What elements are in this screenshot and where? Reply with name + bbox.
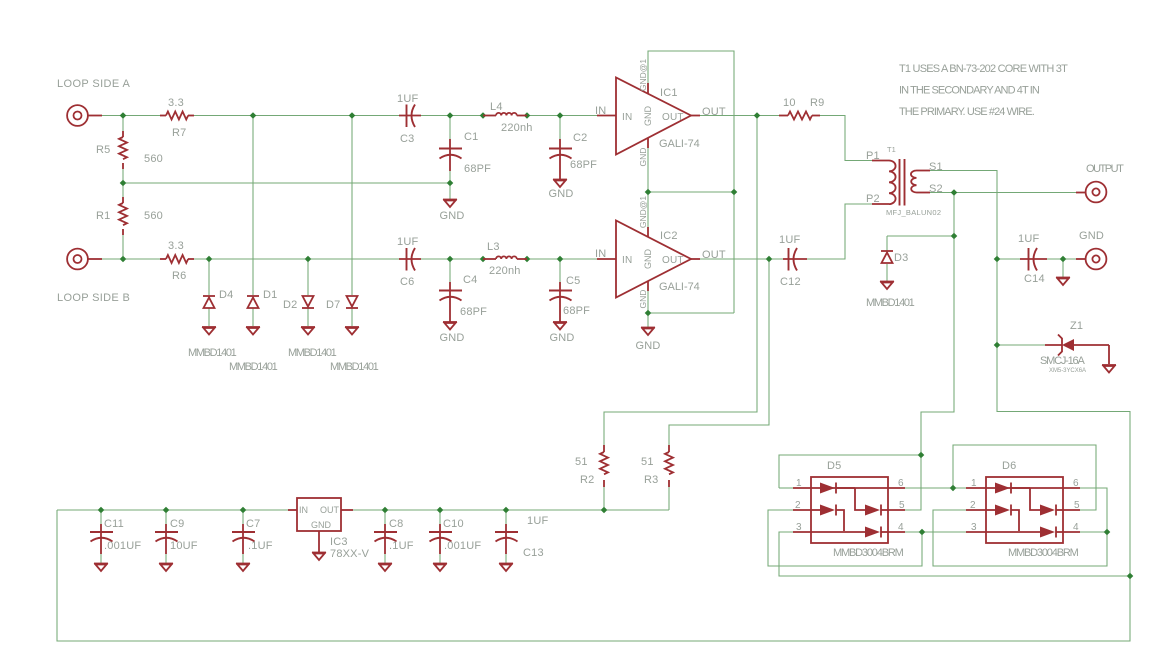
svg-text:C1: C1 xyxy=(464,131,478,143)
wire: IC1 OUT bias riser to R2 xyxy=(604,116,757,446)
ground under IC2 xyxy=(641,328,655,336)
svg-text:D7: D7 xyxy=(326,299,340,311)
wire: C10 stem xyxy=(439,510,441,524)
ground under D4 xyxy=(202,327,216,335)
resistor R5 xyxy=(119,131,127,169)
svg-text:.001UF: .001UF xyxy=(104,540,141,552)
diode D2 MMBD1401 xyxy=(302,296,314,308)
svg-text:3: 3 xyxy=(796,522,802,533)
junction group: mid wire xyxy=(120,180,127,187)
svg-text:C5: C5 xyxy=(566,275,580,287)
svg-text:D6: D6 xyxy=(1002,460,1016,472)
capacitor C13 xyxy=(495,524,518,554)
wire: D5 pin6 to D6 pin1 xyxy=(905,487,966,489)
svg-text:GND@1: GND@1 xyxy=(638,196,648,229)
wire: D5 pin1/pin5 loop xyxy=(779,455,921,510)
svg-text:S2: S2 xyxy=(929,183,943,195)
wire: R5 R1 divider column xyxy=(122,116,124,138)
svg-text:MMBD3004BRM: MMBD3004BRM xyxy=(833,547,904,559)
diode array D6 MMBD3004BRM xyxy=(966,477,1080,543)
svg-text:2: 2 xyxy=(970,500,976,511)
capacitor C9 xyxy=(155,524,178,554)
svg-text:LOOP SIDE A: LOOP SIDE A xyxy=(57,78,130,90)
inductor L4 xyxy=(483,113,527,116)
svg-text:4: 4 xyxy=(1073,522,1079,533)
svg-text:GND: GND xyxy=(643,249,653,270)
ground under C7 xyxy=(236,564,250,572)
svg-text:6: 6 xyxy=(898,478,904,489)
svg-text:C4: C4 xyxy=(463,274,477,286)
connector OUTPUT xyxy=(1076,182,1106,203)
wire: S1 net down right to bottom xyxy=(57,345,1130,641)
wire: D6 pin1/pin5 loop xyxy=(953,445,1096,510)
capacitor C2 xyxy=(549,139,572,179)
wire: row A after C3 xyxy=(421,115,483,117)
wire: row B after R6 xyxy=(194,258,399,260)
svg-text:1UF: 1UF xyxy=(779,234,800,246)
svg-text:1UF: 1UF xyxy=(397,236,418,248)
diode D1 MMBD1401 xyxy=(247,296,259,308)
svg-text:GND: GND xyxy=(548,188,573,200)
diode array D5 MMBD3004BRM xyxy=(793,477,905,543)
wire: C1 stem lower to mid wire and gnd xyxy=(449,171,451,199)
wire: C9 stem xyxy=(165,510,167,524)
svg-text:OUT: OUT xyxy=(702,249,726,261)
svg-text:THE PRIMARY. USE #24 WIRE.: THE PRIMARY. USE #24 WIRE. xyxy=(899,106,1035,118)
svg-text:C9: C9 xyxy=(170,518,184,530)
wire: IC2 OUT bias riser to R3 xyxy=(669,259,769,445)
svg-text:68PF: 68PF xyxy=(460,306,487,318)
svg-text:10UF: 10UF xyxy=(170,540,198,552)
wire: D3 to gnd xyxy=(886,264,888,281)
svg-text:L3: L3 xyxy=(487,241,500,253)
resistor R1 xyxy=(119,197,127,235)
wire: S2 net down to D5 loop xyxy=(921,236,954,455)
wire: C4 stem xyxy=(449,259,451,282)
svg-text:C10: C10 xyxy=(443,518,464,530)
svg-text:OUTPUT: OUTPUT xyxy=(1086,163,1124,175)
svg-text:IN THE SECONDARY AND 4T IN: IN THE SECONDARY AND 4T IN xyxy=(899,85,1040,97)
capacitor C8 xyxy=(374,524,397,554)
wire: row A after R7 xyxy=(194,115,399,117)
ground under D3 xyxy=(880,282,894,290)
ground under C11 xyxy=(94,564,108,572)
svg-text:3: 3 xyxy=(971,522,977,533)
svg-text:C11: C11 xyxy=(104,518,124,530)
svg-text:GND: GND xyxy=(439,332,464,344)
wire: IC1 OUT to R9 xyxy=(700,115,779,117)
svg-text:GND: GND xyxy=(1079,230,1104,242)
svg-text:D1: D1 xyxy=(263,289,277,301)
ground under C8 xyxy=(378,564,392,572)
wire: D6 pin2 U link xyxy=(933,488,1107,566)
wire: D5 pin4 to D6 pin3 xyxy=(905,531,966,533)
zener Z1 SMCJ-16A xyxy=(1045,335,1109,365)
svg-text:MMBD1401: MMBD1401 xyxy=(229,361,278,373)
svg-text:R5: R5 xyxy=(96,144,110,156)
inductor L3 xyxy=(483,256,527,259)
wire: IC2 OUT to C12 xyxy=(700,258,783,260)
svg-text:6: 6 xyxy=(1073,478,1079,489)
ground under C9 xyxy=(159,564,173,572)
ground under C5 xyxy=(553,322,567,330)
svg-text:GND: GND xyxy=(643,106,653,127)
svg-text:10: 10 xyxy=(783,97,796,109)
svg-text:.1UF: .1UF xyxy=(389,540,414,552)
wire: T1 S2 to OUTPUT xyxy=(930,192,954,194)
svg-text:IC3: IC3 xyxy=(330,536,348,548)
wire: D2 to gnd xyxy=(307,308,309,326)
wire: S1 vertical to Z1 line xyxy=(996,259,998,345)
wire: mid horizontal y=183 xyxy=(123,182,450,184)
capacitor C1 xyxy=(439,139,462,171)
wire: C5 stem xyxy=(559,259,561,282)
wire: C14 gnd drop xyxy=(1062,259,1064,277)
svg-text:IN: IN xyxy=(299,505,308,515)
wire: supply bus left of IC3 xyxy=(57,509,288,511)
resistor R9 xyxy=(779,112,820,120)
svg-text:51: 51 xyxy=(641,456,654,468)
svg-text:IN: IN xyxy=(622,112,632,123)
svg-text:560: 560 xyxy=(144,210,163,222)
svg-text:C2: C2 xyxy=(573,132,587,144)
svg-text:R3: R3 xyxy=(644,474,658,486)
wire: row A net from connector to R7 xyxy=(102,115,123,117)
svg-text:MMBD1401: MMBD1401 xyxy=(288,347,337,359)
junction group: S2 output xyxy=(951,189,958,196)
ground under C2 xyxy=(553,180,567,188)
wire: row B net from connector to R6 xyxy=(102,258,123,260)
wire: D3 line xyxy=(887,235,954,237)
svg-text:IN: IN xyxy=(622,255,632,266)
svg-text:C12: C12 xyxy=(780,276,801,288)
wire: IC2 gnd stem xyxy=(647,313,649,327)
junction group: row B xyxy=(120,256,127,263)
svg-text:SMCJ-16A: SMCJ-16A xyxy=(1040,355,1085,367)
svg-text:D3: D3 xyxy=(894,252,908,264)
capacitor C14 xyxy=(1020,248,1047,271)
svg-text:GND: GND xyxy=(549,332,574,344)
svg-text:R1: R1 xyxy=(96,210,110,222)
ground under IC3 xyxy=(312,553,326,561)
svg-text:4: 4 xyxy=(898,522,904,533)
svg-text:MMBD1401: MMBD1401 xyxy=(866,297,915,309)
svg-text:R7: R7 xyxy=(172,127,186,139)
junction group: GALI gnd loop xyxy=(645,189,652,196)
ground under D2 xyxy=(301,327,315,335)
svg-text:T1: T1 xyxy=(887,145,896,154)
svg-text:IC1: IC1 xyxy=(660,87,678,99)
svg-text:OUT: OUT xyxy=(662,112,684,123)
svg-text:GND: GND xyxy=(439,210,464,222)
transformer T1 MFJ_BALUN02 xyxy=(872,159,930,206)
junction group: D5 D6 area xyxy=(918,452,925,459)
svg-text:C14: C14 xyxy=(1024,273,1045,285)
wire: IC1 gnd loop xyxy=(648,51,734,192)
svg-text:68PF: 68PF xyxy=(464,163,491,175)
connector LOOP SIDE B xyxy=(67,249,102,270)
svg-text:C13: C13 xyxy=(523,547,544,559)
capacitor C10 xyxy=(429,524,452,554)
svg-text:D5: D5 xyxy=(827,460,841,472)
wire: D1 to gnd xyxy=(252,308,254,326)
svg-text:XM5-3YCX6A: XM5-3YCX6A xyxy=(1049,368,1086,374)
junction group: row A xyxy=(120,112,127,119)
svg-text:5: 5 xyxy=(1074,500,1080,511)
wire: row B after C6 xyxy=(421,258,483,260)
capacitor C5 xyxy=(549,282,572,322)
wire: D3 top lead xyxy=(886,236,888,251)
svg-text:IC2: IC2 xyxy=(660,230,678,242)
svg-text:68PF: 68PF xyxy=(563,305,590,317)
svg-text:OUT: OUT xyxy=(702,106,726,118)
svg-text:68PF: 68PF xyxy=(570,159,597,171)
svg-text:Z1: Z1 xyxy=(1070,320,1083,332)
wire: R2 bottom to bus xyxy=(603,487,605,510)
op-amp IC1 GALI-74 xyxy=(597,78,700,155)
wire: row B after L3 to IC2 IN xyxy=(527,258,597,260)
svg-text:IN: IN xyxy=(595,105,606,117)
wire: D4 column xyxy=(208,259,210,295)
wire: C1 stem upper xyxy=(449,116,451,140)
capacitor C11 xyxy=(90,524,113,554)
svg-text:GND@1: GND@1 xyxy=(638,59,648,92)
svg-text:R2: R2 xyxy=(580,474,594,486)
svg-text:MMBD1401: MMBD1401 xyxy=(330,361,379,373)
svg-text:S1: S1 xyxy=(929,161,943,173)
svg-text:T1 USES A BN-73-202 CORE WITH: T1 USES A BN-73-202 CORE WITH 3T xyxy=(899,63,1068,75)
capacitor C7 xyxy=(232,524,255,554)
svg-text:51: 51 xyxy=(575,456,588,468)
wire: C11 stem xyxy=(100,510,102,524)
svg-text:.001UF: .001UF xyxy=(444,540,481,552)
wire: D1 column xyxy=(252,116,254,296)
svg-text:MMBD1401: MMBD1401 xyxy=(188,347,237,359)
ground under C1 xyxy=(443,200,457,208)
svg-text:1: 1 xyxy=(796,478,802,489)
svg-text:1UF: 1UF xyxy=(527,515,548,527)
svg-text:GND: GND xyxy=(311,520,332,530)
capacitor C4 xyxy=(439,282,462,322)
wire: C2 stem xyxy=(559,116,561,140)
diode D7 MMBD1401 xyxy=(346,296,358,308)
wire: D7 to gnd xyxy=(351,308,353,326)
svg-text:GND: GND xyxy=(638,290,648,309)
svg-text:GALI-74: GALI-74 xyxy=(659,138,700,150)
svg-text:GND: GND xyxy=(635,340,660,352)
svg-text:560: 560 xyxy=(144,153,163,165)
svg-text:C6: C6 xyxy=(400,276,414,288)
wire: row A after L4 to IC1 IN xyxy=(527,115,597,117)
svg-text:1: 1 xyxy=(971,478,977,489)
svg-text:OUT: OUT xyxy=(662,255,684,266)
svg-text:220nh: 220nh xyxy=(489,265,521,277)
ground under C14 junction xyxy=(1056,278,1070,286)
svg-text:R9: R9 xyxy=(810,97,824,109)
wire: supply bus right of IC3 xyxy=(353,509,669,511)
wire: Z1 line xyxy=(997,344,1046,346)
wire: after R9 to T1 P1 xyxy=(820,116,872,161)
wire: D7 column xyxy=(351,116,353,296)
svg-text:MMBD3004BRM: MMBD3004BRM xyxy=(1008,547,1079,559)
svg-text:OUT: OUT xyxy=(320,505,340,515)
wire: after C12 up to T1 P2 xyxy=(807,204,872,259)
svg-text:P2: P2 xyxy=(866,193,880,205)
wire: S2 down to D3 line xyxy=(953,193,955,237)
ground under C13 xyxy=(499,564,513,572)
svg-text:1UF: 1UF xyxy=(1018,233,1039,245)
svg-text:D4: D4 xyxy=(219,289,233,301)
wire: C8 stem xyxy=(384,510,386,524)
wire: C13 stem xyxy=(505,510,507,524)
diode D4 MMBD1401 xyxy=(203,296,215,308)
diode D3 MMBD1401 xyxy=(881,251,893,263)
resistor R7 xyxy=(160,112,194,120)
connector GND xyxy=(1076,249,1106,270)
junction group: supply bus xyxy=(98,507,105,514)
ground under C4 xyxy=(443,322,457,330)
capacitor C6 xyxy=(399,248,421,271)
svg-text:.1UF: .1UF xyxy=(248,540,273,552)
wire: IC2 gnd loop xyxy=(647,192,649,227)
wire: C7 stem xyxy=(242,510,244,524)
capacitor C3 xyxy=(399,105,421,128)
svg-text:C3: C3 xyxy=(400,133,414,145)
svg-text:2: 2 xyxy=(795,500,801,511)
op-amp IC2 GALI-74 xyxy=(597,221,700,298)
svg-text:LOOP SIDE B: LOOP SIDE B xyxy=(57,292,130,304)
wire: C14 line xyxy=(997,258,1020,260)
wire: D6 pin4 stub to vertical xyxy=(1080,531,1107,533)
wire: T1 S1 to C14 line and down xyxy=(930,171,997,260)
svg-text:IN: IN xyxy=(595,248,606,260)
resistor R3 xyxy=(665,445,673,487)
wire: D5 pin3 drop to bottom junction xyxy=(779,532,1130,576)
svg-text:3.3: 3.3 xyxy=(168,240,184,252)
voltage regulator IC3 78XX-V xyxy=(288,498,353,552)
svg-text:5: 5 xyxy=(899,500,905,511)
wire: D2 column xyxy=(307,259,309,295)
wire: R3 bottom to bus xyxy=(668,487,670,510)
svg-text:L4: L4 xyxy=(490,101,503,113)
resistor R2 xyxy=(600,445,608,487)
capacitor C12 xyxy=(783,248,807,271)
connector LOOP SIDE A xyxy=(67,105,102,126)
svg-text:1UF: 1UF xyxy=(397,93,418,105)
svg-text:220nh: 220nh xyxy=(501,122,533,134)
svg-text:C8: C8 xyxy=(389,518,403,530)
svg-text:MFJ_BALUN02: MFJ_BALUN02 xyxy=(886,208,941,217)
wire: D4 to gnd xyxy=(208,308,210,326)
svg-text:C7: C7 xyxy=(246,518,260,530)
svg-text:GND: GND xyxy=(638,148,648,167)
svg-text:R6: R6 xyxy=(172,270,186,282)
resistor R6 xyxy=(160,255,194,263)
svg-text:P1: P1 xyxy=(866,150,880,162)
svg-text:3.3: 3.3 xyxy=(168,97,184,109)
svg-text:D2: D2 xyxy=(283,299,297,311)
ground under Z1 xyxy=(1102,365,1116,373)
ground under D1 xyxy=(246,327,260,335)
wire: D5 pin2 U link xyxy=(768,510,922,566)
svg-text:78XX-V: 78XX-V xyxy=(330,548,370,560)
ground under C10 xyxy=(433,564,447,572)
ground under D7 xyxy=(345,327,359,335)
junction group: C14/Z1 xyxy=(994,256,1001,263)
svg-text:GALI-74: GALI-74 xyxy=(659,281,700,293)
